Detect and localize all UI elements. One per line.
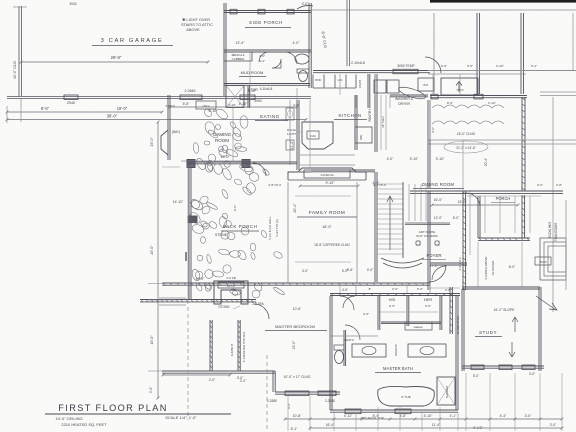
- svg-text:21'-2": 21'-2": [290, 140, 294, 150]
- dining scallop 1: [432, 105, 504, 108]
- stoop arrow: [456, 82, 462, 93]
- fireplace: [214, 281, 248, 304]
- svg-text:CUBBIES: CUBBIES: [232, 57, 245, 61]
- gallery / media top: [311, 169, 375, 171]
- svg-text:ABOVE: ABOVE: [186, 27, 200, 32]
- svg-text:6'-0": 6'-0": [441, 64, 447, 68]
- entry east wall: [462, 191, 464, 290]
- svg-text:12'-0": 12'-0": [434, 216, 443, 220]
- svg-text:DINING ROOM: DINING ROOM: [422, 182, 455, 187]
- svg-text:HIS: HIS: [389, 297, 396, 302]
- niche wall: [405, 222, 450, 224]
- svg-text:2'-0": 2'-0": [209, 378, 216, 382]
- island: [302, 122, 333, 149]
- bay window: [161, 130, 168, 155]
- svg-text:8'-0": 8'-0": [509, 265, 516, 269]
- bedroom window: [285, 391, 309, 396]
- svg-text:makeup: makeup: [413, 325, 423, 329]
- stair rail: [402, 182, 404, 258]
- svg-text:4'-10": 4'-10": [239, 102, 248, 106]
- svg-text:2-2646: 2-2646: [185, 89, 196, 93]
- svg-text:FIRST FLOOR PLAN: FIRST FLOOR PLAN: [58, 403, 168, 413]
- left tall dim line: [157, 122, 159, 398]
- svg-text:3'-10": 3'-10": [424, 414, 433, 418]
- svg-text:4050: 4050: [254, 99, 262, 103]
- closet top wall: [330, 293, 460, 295]
- study window 1: [471, 365, 484, 370]
- stoop: [441, 78, 478, 95]
- 3040 window box: [535, 257, 551, 265]
- svg-text:MASTER BATH: MASTER BATH: [383, 366, 413, 371]
- svg-text:MASTER BEDROOM: MASTER BEDROOM: [275, 324, 315, 329]
- side porch bottom wall: [224, 49, 311, 51]
- svg-text:5'-0": 5'-0": [417, 287, 423, 291]
- porch post: [258, 9, 265, 14]
- svg-text:4'-0 FB: 4'-0 FB: [226, 276, 236, 280]
- svg-text:STUDY: STUDY: [479, 330, 497, 335]
- svg-text:3'-0": 3'-0": [525, 414, 533, 418]
- svg-text:6'-0": 6'-0": [233, 205, 237, 211]
- north wall dining: [430, 95, 527, 97]
- svg-text:18'-0": 18'-0": [322, 225, 332, 229]
- lav oval: [295, 54, 309, 64]
- svg-text:20'-4": 20'-4": [484, 157, 488, 166]
- rear edge line: [428, 70, 576, 72]
- study south wall: [462, 365, 544, 367]
- kitchen west counter line: [289, 100, 291, 165]
- svg-text:OJA: OJA: [310, 134, 316, 138]
- bedroom sw wall: [162, 370, 275, 372]
- svg-text:42"FP: 42"FP: [227, 284, 235, 288]
- dining scallop 2: [432, 121, 504, 124]
- svg-text:B'LDG W/S: B'LDG W/S: [548, 221, 552, 239]
- top property line: [311, 9, 576, 11]
- washer: [374, 80, 386, 93]
- svg-text:8": 8": [369, 287, 372, 291]
- slope arrow up: [512, 317, 518, 332]
- svg-text:1/2 ROUND: 1/2 ROUND: [491, 261, 495, 276]
- porch post sw: [188, 216, 197, 223]
- svg-text:3 CAR GARAGE: 3 CAR GARAGE: [101, 38, 164, 44]
- study east wall: [538, 287, 540, 371]
- wing window 2: [240, 95, 255, 100]
- wc tank: [297, 69, 309, 73]
- arrow se: [536, 296, 557, 310]
- svg-text:STONE: STONE: [215, 233, 228, 237]
- bottom dim line 1: [285, 418, 562, 420]
- svg-text:3'-0": 3'-0": [287, 403, 291, 409]
- svg-text:6-2650 B: 6-2650 B: [230, 344, 234, 357]
- porch post: [230, 9, 237, 14]
- west window mark: [185, 252, 187, 261]
- closet nook wall 1: [209, 320, 211, 371]
- svg-text:15'-2" SLOPE: 15'-2" SLOPE: [494, 308, 516, 312]
- wc compartment wall: [343, 330, 345, 366]
- svg-text:TRANSOMS: TRANSOMS: [554, 222, 558, 241]
- wc bowl: [299, 71, 308, 82]
- butler wall: [390, 94, 428, 96]
- svg-text:3'-0": 3'-0": [550, 423, 558, 427]
- hall east wall: [346, 0, 348, 66]
- stone blobs: [229, 250, 240, 257]
- hall door arc: [340, 296, 354, 310]
- dw: [286, 140, 294, 150]
- svg-text:14'-10": 14'-10": [173, 200, 184, 204]
- study west wall: [461, 289, 463, 371]
- tub: [378, 386, 435, 406]
- bath inner wall: [330, 335, 378, 337]
- bottom extension lines: [287, 396, 289, 431]
- svg-text:12'-4": 12'-4": [236, 41, 246, 45]
- svg-text:4'-10": 4'-10": [248, 89, 257, 93]
- svg-text:0'-5": 0'-5": [425, 304, 431, 308]
- half wall posts: [187, 160, 195, 168]
- stairs west wall: [374, 172, 376, 282]
- svg-text:8'-6": 8'-6": [41, 106, 50, 111]
- svg-text:16" SHLV: 16" SHLV: [381, 116, 385, 128]
- stairs east wall / foyer west: [427, 191, 429, 290]
- svg-text:4'-0": 4'-0": [259, 54, 265, 58]
- svg-text:4'-0": 4'-0": [293, 41, 301, 45]
- svg-text:3'-0": 3'-0": [149, 386, 153, 393]
- north window band: [159, 297, 186, 299]
- svg-text:4'-5"x5'-0: 4'-5"x5'-0: [373, 183, 386, 187]
- rear post line 0: [433, 13, 435, 94]
- svg-text:4'-6": 4'-6": [363, 312, 369, 316]
- porch west wall: [188, 167, 190, 300]
- svg-text:4'-0": 4'-0": [431, 127, 435, 133]
- laundry west wall: [367, 74, 369, 108]
- svg-text:9'-10": 9'-10": [326, 181, 336, 185]
- svg-text:4'-6": 4'-6": [342, 288, 348, 292]
- media cabinet: [304, 170, 350, 178]
- eating east wall: [296, 100, 298, 170]
- makeup counter: [405, 322, 432, 330]
- svg-text:W/ 8" COLUMNS: W/ 8" COLUMNS: [416, 234, 438, 238]
- svg-text:20'-4": 20'-4": [293, 203, 297, 213]
- rod her: [409, 311, 438, 313]
- bath east wall: [455, 296, 457, 410]
- dryer: [387, 80, 399, 93]
- svg-text:4'-0": 4'-0": [302, 269, 308, 273]
- front door arc: [429, 265, 446, 282]
- dashed cl line: [187, 300, 189, 420]
- study window 2: [499, 365, 512, 370]
- laundry window: [393, 69, 418, 73]
- far right vertical: [572, 13, 574, 70]
- mud bottom wall: [224, 83, 310, 85]
- svg-text:0'-5": 0'-5": [389, 304, 395, 308]
- media wall base: [288, 179, 366, 181]
- wing window 1: [180, 95, 202, 100]
- kitchen south counter: [300, 154, 355, 156]
- svg-text:5'-0": 5'-0": [473, 374, 479, 378]
- svg-text:3040: 3040: [540, 260, 547, 264]
- kitchen east counter wall: [354, 95, 356, 150]
- svg-text:10'-0" x 17' CLNG: 10'-0" x 17' CLNG: [284, 375, 311, 379]
- hall arc 3: [345, 325, 360, 340]
- entry steps nested: [540, 238, 566, 280]
- bedroom step wall: [272, 371, 274, 392]
- svg-text:2'-8": 2'-8": [556, 183, 562, 187]
- garage left wall: [18, 6, 20, 96]
- svg-text:SIDE PORCH: SIDE PORCH: [249, 20, 283, 25]
- svg-text:5-8 ARCH ABOVE: 5-8 ARCH ABOVE: [484, 256, 488, 279]
- dashed cl line 2: [266, 355, 268, 432]
- study window 3: [522, 365, 535, 370]
- attic stair closet: [226, 86, 244, 108]
- bath south wall: [330, 409, 458, 411]
- svg-text:BACK PORCH: BACK PORCH: [223, 224, 258, 229]
- closet wall e: [439, 296, 441, 330]
- rear post line 2: [520, 13, 522, 94]
- svg-text:office: office: [202, 104, 209, 108]
- closet wall w: [377, 296, 379, 330]
- svg-text:10'-0" CEILING: 10'-0" CEILING: [55, 416, 82, 421]
- long south wall A: [162, 282, 430, 284]
- svg-text:5'-8": 5'-8": [183, 102, 191, 106]
- stair arrow: [387, 196, 393, 250]
- study north wall: [462, 286, 540, 288]
- bath window 1: [345, 409, 361, 414]
- svg-text:2210 HEATED SQ. FEET: 2210 HEATED SQ. FEET: [61, 422, 107, 427]
- svg-text:16'-8' COFFERED CLNG: 16'-8' COFFERED CLNG: [314, 243, 350, 247]
- svg-text:(BAY): (BAY): [172, 130, 180, 134]
- ext porch-study 2: [521, 242, 523, 287]
- svg-text:38'-0": 38'-0": [107, 114, 118, 119]
- svg-text:8'-1": 8'-1": [291, 427, 299, 431]
- bench cubbies box: [224, 52, 252, 61]
- svg-text:ROOM: ROOM: [215, 138, 229, 143]
- svg-text:4'-0": 4'-0": [367, 268, 374, 272]
- svg-text:10'-0" CLG: 10'-0" CLG: [13, 61, 17, 79]
- entry strip wall: [449, 287, 451, 334]
- extension lines: [249, 52, 251, 108]
- svg-text:HER: HER: [424, 297, 433, 302]
- gallery north wall west seg: [250, 161, 297, 163]
- closet nook wall 2: [237, 320, 239, 371]
- svg-text:B.P.: B.P.: [423, 83, 428, 87]
- side porch top wall: [224, 10, 311, 12]
- rod his: [380, 311, 406, 313]
- closet bottom wall: [381, 321, 441, 323]
- svg-text:LIGHT: LIGHT: [287, 132, 296, 136]
- rear door arc: [425, 57, 441, 73]
- right dim b: [428, 139, 576, 141]
- dining west wall: [427, 100, 429, 188]
- niche columns: [416, 241, 420, 245]
- svg-text:5'-10": 5'-10": [410, 157, 419, 161]
- svg-text:6'-0": 6'-0": [453, 216, 460, 220]
- bedroom window 2: [318, 391, 336, 396]
- vanity L: [352, 344, 386, 357]
- ext porch-study 1: [477, 242, 479, 287]
- svg-text:16'-4": 16'-4": [326, 423, 335, 427]
- dining-porch south wall: [410, 190, 563, 192]
- stair treads: [377, 183, 403, 185]
- curved bottom tread: [381, 258, 424, 263]
- scanner black bar: [430, 0, 576, 3]
- office box: [196, 101, 216, 109]
- svg-text:19'-0": 19'-0": [150, 137, 154, 147]
- mud door arc 2: [259, 52, 269, 62]
- garage bottom wall: [7, 96, 311, 98]
- svg-text:EATING: EATING: [260, 114, 280, 119]
- svg-text:2940: 2940: [67, 101, 75, 105]
- svg-text:15'-0" CLNG: 15'-0" CLNG: [457, 132, 476, 136]
- slope arrow dn: [509, 342, 515, 357]
- svg-text:3040: 3040: [69, 2, 76, 6]
- hall arc 4: [343, 296, 355, 308]
- pantry wall: [374, 74, 376, 152]
- svg-text:4'-6" x 8'-0: 4'-6" x 8'-0: [458, 257, 462, 271]
- svg-text:21'-2" x 14'-6": 21'-2" x 14'-6": [456, 146, 476, 150]
- svg-text:10'-6": 10'-6": [293, 307, 302, 311]
- laundry top wall: [313, 70, 430, 72]
- svg-text:15'-0": 15'-0": [292, 340, 296, 350]
- pantry shelf line: [380, 95, 382, 150]
- svg-text:DRYER: DRYER: [398, 102, 410, 106]
- svg-text:4'-1": 4'-1": [450, 414, 458, 418]
- svg-text:SHOWER: SHOWER: [445, 386, 449, 399]
- svg-text:FOYER: FOYER: [426, 253, 441, 258]
- porch south wall: [478, 237, 530, 239]
- coffer line: [295, 195, 351, 197]
- svg-text:9'-10": 9'-10": [496, 64, 504, 68]
- svg-text:6' TUB: 6' TUB: [401, 395, 410, 399]
- bath door arc: [272, 59, 281, 68]
- svg-text:5'-4": 5'-4": [531, 64, 537, 68]
- ext left: [6, 106, 8, 123]
- sweep curve: [297, 5, 313, 9]
- svg-text:10'-0": 10'-0": [150, 335, 154, 345]
- svg-text:MUD ROOM: MUD ROOM: [241, 70, 264, 75]
- svg-text:6' COUNTER TOP 40-0: 6' COUNTER TOP 40-0: [242, 331, 246, 362]
- svg-text:10'-0": 10'-0": [196, 277, 205, 281]
- mud door arc: [285, 52, 297, 64]
- closet divider: [406, 296, 408, 326]
- svg-text:19'-0": 19'-0": [117, 106, 128, 111]
- svg-text:4'-5"x5'-0: 4'-5"x5'-0: [268, 183, 281, 187]
- dim row1: [7, 111, 162, 113]
- vanity R: [408, 344, 446, 357]
- dbl oven: [355, 127, 372, 143]
- foyer-porch arc: [466, 193, 480, 207]
- svg-text:W/D: W/D: [315, 78, 322, 82]
- family west wall: [287, 182, 289, 283]
- bath window 2: [395, 409, 411, 414]
- dim row2 38-0: [7, 119, 306, 121]
- svg-text:3'-10": 3'-10": [436, 157, 445, 161]
- svg-text:5'-8": 5'-8": [400, 414, 408, 418]
- svg-text:DBL: DBL: [359, 134, 363, 140]
- shower: [437, 377, 455, 405]
- arc eating-porch: [253, 163, 266, 176]
- rear post line 1: [476, 13, 478, 94]
- west wall of house: [223, 3, 225, 96]
- svg-text:11'-4": 11'-4": [432, 423, 441, 427]
- bottom dim line 2: [310, 427, 562, 429]
- svg-text:MAKEUP: MAKEUP: [394, 344, 398, 356]
- bath west wall: [329, 296, 331, 410]
- right dim a: [540, 91, 576, 93]
- svg-text:FAMILY ROOM: FAMILY ROOM: [309, 210, 345, 216]
- bedroom door arc: [254, 304, 269, 319]
- svg-text:3'-6": 3'-6": [392, 287, 398, 291]
- media wall outline: [288, 168, 366, 180]
- svg-text:5-3/4 TYP (2): 5-3/4 TYP (2): [275, 219, 279, 236]
- svg-text:STONE: STONE: [218, 305, 230, 309]
- family east wall: [356, 182, 358, 283]
- svg-text:KITCHEN: KITCHEN: [339, 113, 362, 118]
- svg-text:3'-0": 3'-0": [529, 372, 535, 376]
- svg-text:4'-0": 4'-0": [302, 2, 309, 6]
- svg-text:3'-0": 3'-0": [537, 183, 543, 187]
- svg-text:8'-0": 8'-0": [447, 101, 453, 105]
- butler cab: [418, 78, 434, 91]
- svg-text:20'-0": 20'-0": [150, 245, 154, 255]
- svg-text:4'-0": 4'-0": [387, 157, 395, 161]
- wing top dim: [170, 106, 297, 108]
- svg-text:16'-0": 16'-0": [434, 198, 443, 202]
- svg-text:5-10x6-8: 5-10x6-8: [260, 87, 273, 91]
- porch west wall: [477, 196, 479, 238]
- svg-text:15'-0": 15'-0": [220, 155, 230, 159]
- svg-text:CENTO: CENTO: [344, 338, 355, 342]
- bedroom south wall: [275, 391, 340, 393]
- half wall: [187, 161, 250, 163]
- wc tank m: [334, 345, 344, 350]
- svg-text:SCALE 1/4": 1'-0": SCALE 1/4": 1'-0": [165, 415, 197, 420]
- right dim vertical: [552, 97, 554, 312]
- svg-text:5'-8": 5'-8": [467, 64, 473, 68]
- svg-text:3050 TEMP: 3050 TEMP: [397, 64, 415, 68]
- foyer south wall: [430, 262, 467, 264]
- svg-text:PORCH: PORCH: [496, 196, 511, 201]
- svg-text:6'-10": 6'-10": [488, 101, 496, 105]
- svg-text:5'-0": 5'-0": [342, 269, 348, 273]
- svg-text:2-10x6-8: 2-10x6-8: [351, 61, 365, 65]
- mud east wall: [308, 3, 310, 88]
- small dim above title: [163, 374, 230, 376]
- svg-text:2-2650: 2-2650: [267, 399, 277, 403]
- dining east wall: [521, 97, 523, 191]
- svg-text:5'-4": 5'-4": [373, 414, 381, 418]
- svg-text:WASHER &: WASHER &: [395, 97, 414, 101]
- porch east wall lower: [521, 195, 523, 238]
- svg-text:OH.BA.6a: OH.BA.6a: [320, 173, 333, 177]
- hall arc 2: [432, 266, 446, 280]
- svg-text:29'-8": 29'-8": [111, 55, 122, 60]
- svg-text:COAT: COAT: [358, 80, 362, 88]
- svg-text:4'-10": 4'-10": [228, 103, 236, 107]
- cubby row: [312, 75, 314, 89]
- svg-text:4'-11": 4'-11": [344, 414, 353, 418]
- svg-text:10'-8": 10'-8": [293, 414, 302, 418]
- west wing wall: [167, 95, 169, 160]
- ironing board: [397, 85, 426, 101]
- svg-text:4'-4": 4'-4": [500, 414, 508, 418]
- svg-text:3'-4": 3'-4": [259, 59, 265, 63]
- svg-text:3'-0": 3'-0": [237, 376, 244, 380]
- bedroom north wall: [140, 299, 256, 301]
- sink: [286, 108, 294, 120]
- garage window 2940: [64, 95, 78, 100]
- svg-text:PANTRY: PANTRY: [368, 108, 372, 122]
- dining dim: [432, 204, 518, 206]
- right ext line: [565, 200, 567, 290]
- porch post: [287, 9, 294, 14]
